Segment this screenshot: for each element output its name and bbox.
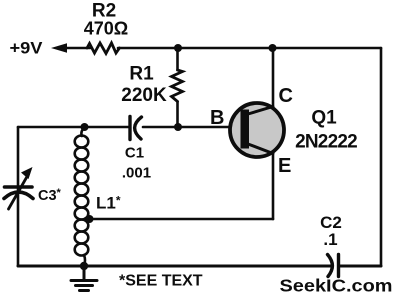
transistor Q1 — [230, 103, 284, 157]
wire: base rail right of C1 — [143, 126, 241, 129]
svg-text:+9V: +9V — [10, 39, 44, 58]
node junction L1 tap — [86, 215, 94, 223]
wire: bottom rail right of C2 — [339, 265, 382, 268]
svg-text:470Ω: 470Ω — [84, 19, 128, 39]
svg-text:C: C — [279, 85, 293, 107]
svg-text:E: E — [278, 155, 291, 177]
svg-text:220K: 220K — [121, 85, 167, 106]
svg-text:SeekIC.com: SeekIC.com — [280, 276, 393, 296]
svg-text:C1: C1 — [125, 145, 144, 162]
wire: emitter vertical — [272, 152, 275, 219]
svg-text:Q1: Q1 — [311, 108, 337, 129]
ground — [71, 266, 97, 291]
wire: top rail — [118, 47, 381, 50]
inductor L1 — [75, 127, 89, 266]
capacitor C1 — [130, 117, 142, 140]
+9V supply arrow — [51, 43, 67, 53]
svg-text:.1: .1 — [323, 230, 337, 249]
svg-text:R1: R1 — [129, 64, 154, 85]
capacitor C3 (variable) — [4, 167, 33, 209]
node junction L1 top — [81, 123, 89, 131]
resistor R1 — [172, 48, 183, 127]
wire: tap to emitter horizontal — [90, 218, 274, 221]
node junction R1 top — [174, 44, 182, 52]
wire: right rail — [380, 48, 383, 266]
node junction ground — [80, 262, 88, 270]
wire: base rail left of C1 — [18, 126, 129, 129]
svg-text:B: B — [210, 107, 224, 129]
svg-text:.001: .001 — [122, 165, 151, 182]
capacitor C2 — [328, 255, 339, 277]
svg-text:L1*: L1* — [96, 194, 121, 213]
svg-text:*SEE TEXT: *SEE TEXT — [119, 273, 203, 290]
resistor R2 — [87, 43, 120, 54]
wire: collector vertical — [272, 48, 275, 108]
svg-text:2N2222: 2N2222 — [295, 132, 357, 153]
node junction R1 bottom — [174, 123, 182, 131]
wire: arrow to R2 — [64, 47, 90, 50]
wire: left rail — [17, 127, 20, 266]
svg-text:C3*: C3* — [38, 187, 62, 204]
wire: bottom rail left of C2 — [18, 265, 331, 268]
node junction collector branch — [269, 44, 277, 52]
